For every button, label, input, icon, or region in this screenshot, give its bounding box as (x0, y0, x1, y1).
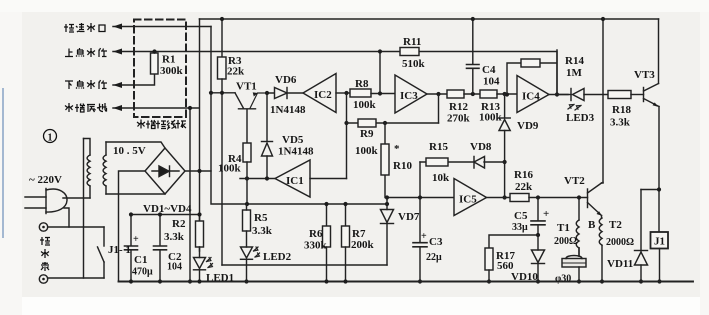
label shui-ta-di-di (tank ground) (65, 103, 107, 112)
wire: IC4 output line (549, 94, 568, 96)
junction C5 top (536, 195, 540, 199)
svg-text:LED1: LED1 (206, 272, 234, 284)
svg-text:R11: R11 (403, 36, 421, 48)
junction R2 top (197, 212, 201, 216)
svg-text:LED3: LED3 (566, 112, 595, 124)
svg-text:1: 1 (48, 133, 53, 144)
wire: secondary bottom to bridge bottom (106, 193, 165, 195)
op-amp IC3 (points right) (395, 75, 427, 113)
junction C1 rail (129, 279, 133, 283)
resistor R12 (447, 90, 464, 98)
faint blue scan edge (2, 88, 4, 238)
svg-text:C1: C1 (134, 254, 147, 266)
wire: R3/collector vertical x=222 (221, 19, 223, 57)
wire: sub-rail y=265 (222, 264, 387, 266)
svg-text:10k: 10k (432, 172, 450, 184)
svg-text:VT2: VT2 (564, 175, 585, 187)
svg-text:~ 220V: ~ 220V (29, 174, 62, 186)
junction VD9 top (503, 92, 507, 96)
svg-text:2000Ω: 2000Ω (606, 237, 634, 248)
arrow lower probe (113, 82, 122, 88)
junction R1 top (152, 49, 156, 53)
label shang-dian-shui-wei (upper level) (65, 48, 107, 57)
wire: R15/VD8 line y=162 (420, 161, 505, 163)
svg-text:300k: 300k (160, 65, 184, 77)
junction C2 bus (158, 212, 162, 216)
LED LED3 (557, 89, 608, 111)
junction bus/VD7 (385, 202, 389, 206)
dashed terminal-board box (134, 20, 186, 118)
wire: IC1 output to R4/R5 node (240, 178, 275, 180)
junction T2 rail (600, 279, 604, 283)
resistor R5 (243, 204, 251, 231)
LED LED1 (194, 247, 213, 282)
wire: lower level probe line y=85 (113, 74, 155, 85)
svg-text:R2: R2 (172, 218, 186, 230)
svg-text:J1: J1 (654, 236, 665, 248)
wire: IC2 right to R8 (336, 92, 350, 94)
svg-text:R16: R16 (514, 169, 533, 181)
transistor VT1 (235, 92, 267, 143)
circled 1 mark (44, 130, 57, 143)
wire: R16 to VT2 base (529, 197, 588, 199)
svg-text:R8: R8 (355, 78, 369, 90)
wire: bottom ground rail (119, 281, 694, 283)
svg-text:C4: C4 (482, 64, 496, 76)
svg-text:R10: R10 (393, 160, 412, 172)
junction VD11 rail (639, 279, 643, 283)
junction R10/VD7 node (385, 195, 389, 199)
junction bus R5 (245, 202, 249, 206)
svg-text:VD10: VD10 (511, 271, 538, 283)
junction probe common at collector line (209, 91, 213, 95)
diode VD5 (262, 93, 273, 178)
arrow inlet probe (113, 24, 122, 30)
junction VT1 emitter / VD5 (265, 91, 269, 95)
svg-text:VD1~VD4: VD1~VD4 (143, 203, 192, 215)
wire: R9 line y=123 (347, 122, 439, 124)
wire: R18 to VT3 base (631, 94, 644, 96)
wire: bridge - left vertex to bottom rail (119, 171, 146, 282)
wire: vertical x=346.5 IC2out to R9 line to IC1 input (346, 93, 348, 179)
wire: IC1 input from right (310, 178, 347, 180)
wire: VT3 emitter down to J1 (658, 107, 660, 233)
wire: R8 right to IC3 (371, 93, 395, 95)
wire: ground probe vertical x=190 (189, 108, 191, 282)
svg-text:3.3k: 3.3k (164, 231, 185, 243)
svg-text:R15: R15 (429, 141, 448, 153)
svg-text:3.3k: 3.3k (610, 117, 631, 129)
resistor R13 (480, 90, 497, 98)
label jie-shui-beng (connect pump) vertical (40, 237, 50, 271)
wire: IC5 input line y=197.5 (387, 197, 454, 199)
svg-text:VT1: VT1 (236, 81, 257, 93)
svg-text:104: 104 (483, 76, 500, 88)
junction C4 bottom (471, 92, 475, 96)
junction R6 bus (324, 202, 328, 206)
wire: R13 to IC4 (497, 93, 517, 95)
junction IC5 output (503, 195, 507, 199)
wire: probe common vertical x=211 down to bus (211, 27, 387, 205)
svg-text:B: B (588, 219, 596, 231)
svg-text:R18: R18 (612, 104, 631, 116)
svg-text:IC1: IC1 (286, 175, 304, 187)
wire: R15 left drop to IC5 input (419, 162, 421, 198)
junction LED2 rail (244, 279, 248, 283)
pump terminal top (39, 223, 104, 231)
junction R4 node (245, 176, 249, 180)
junction T1 top (577, 195, 581, 199)
wire: C1/C2 bus y=214.5 (131, 214, 200, 216)
svg-text:+: + (543, 208, 549, 220)
wire: C5/VT2 feed vertical x=603 from rail (602, 19, 604, 183)
junction piezo rail (577, 279, 581, 283)
wire: IC4 feedback loop with R14 (507, 50, 557, 95)
relay contact J1-1 (98, 227, 105, 278)
wire: +V vertical x=199 (rail to R2) (199, 19, 201, 221)
junction IC3 out (436, 92, 440, 96)
svg-text:200Ω: 200Ω (554, 236, 577, 247)
svg-text:100k: 100k (355, 145, 379, 157)
capacitor C4 (467, 19, 480, 94)
junction R6 rail (324, 279, 328, 283)
resistor R17 (485, 248, 493, 282)
diode VD10 (532, 235, 545, 282)
junction VD5-IC1 (265, 176, 269, 180)
op-amp IC2 (points left) (303, 74, 336, 113)
wire: tank ground probe line y=108 (113, 107, 199, 109)
LED LED2 (241, 231, 260, 282)
junction VD11 link (657, 187, 661, 191)
capacitor C3 (413, 198, 427, 282)
resistor R14 (521, 59, 540, 67)
wire: IC3 feedback drop (438, 94, 440, 123)
resistor R7 (342, 204, 350, 282)
svg-text:33μ: 33μ (512, 222, 528, 233)
wire: VT2 collector up (602, 182, 604, 185)
junction C3 rail (418, 279, 422, 283)
op-amp IC4 (points right) (517, 76, 549, 113)
svg-text:R6: R6 (309, 228, 323, 240)
svg-text:R14: R14 (565, 55, 584, 67)
label jie-jin-shui-kou (water inlet) (64, 23, 105, 32)
diode VD7 (381, 198, 394, 266)
capacitor C2 (154, 215, 167, 282)
diode VD11 (635, 190, 648, 282)
svg-text:22k: 22k (227, 66, 245, 78)
wire: primary bottom to plug y=198 (63, 197, 90, 199)
svg-text:104: 104 (167, 262, 182, 273)
svg-text:200k: 200k (351, 239, 375, 251)
svg-text:R9: R9 (360, 128, 374, 140)
diode VD6 (267, 88, 303, 99)
svg-text:J1- 1: J1- 1 (108, 244, 131, 256)
wire: inlet probe line y=26 (113, 26, 211, 28)
transistor VT3 (644, 84, 660, 107)
svg-text:3.3k: 3.3k (252, 225, 273, 237)
junction IC2out/R9 drop (344, 91, 348, 95)
junction C3/R15 node (418, 195, 422, 199)
wire: probe drop x=380 (379, 52, 381, 94)
transformer T2 winding (599, 216, 602, 282)
svg-text:+: + (421, 231, 427, 242)
svg-text:VT3: VT3 (634, 69, 655, 81)
label shui-ta-jie-xian-ban (terminal board) (137, 120, 186, 129)
svg-text:T2: T2 (609, 219, 622, 231)
junction bridge+ at x=199 (197, 169, 201, 173)
svg-text:330k: 330k (304, 240, 328, 252)
junction x=603 rail (601, 17, 605, 21)
bridge rectifier VD1-VD4 (145, 148, 185, 194)
junction VD8 right (503, 160, 507, 164)
junction J1 rail (657, 279, 661, 283)
junction LED1 rail (197, 279, 201, 283)
svg-text:100k: 100k (218, 163, 242, 175)
resistor R8 (350, 89, 371, 97)
transformer primary coil (84, 139, 91, 199)
wire: R3 bottom to collector line (221, 79, 223, 93)
op-amp IC1 (points left) (275, 160, 310, 197)
resistor R11 (400, 48, 419, 56)
svg-text:IC5: IC5 (459, 194, 477, 206)
svg-text:270k: 270k (447, 113, 471, 125)
resistor R15 (426, 158, 448, 166)
junction collector node (220, 91, 224, 95)
wire: R4 node down to bus (246, 179, 248, 205)
resistor R4 (243, 143, 251, 179)
resistor R1 (151, 52, 159, 75)
svg-text:C3: C3 (429, 236, 443, 248)
piezo sounder phi30 (562, 248, 586, 282)
svg-text:10 . 5V: 10 . 5V (113, 145, 146, 157)
wire: collector line and x=222 down to LED2 subrail (211, 93, 235, 265)
wire: secondary top to bridge top (106, 142, 165, 148)
svg-text:R12: R12 (449, 101, 468, 113)
svg-text:510k: 510k (402, 58, 426, 70)
wire: primary top down-wire x=83.5 (83, 139, 85, 279)
wire: C5 bottom to R17 (489, 235, 538, 248)
svg-text:VD7: VD7 (398, 211, 420, 223)
transformer T1 winding (576, 198, 579, 257)
pump terminal bottom (39, 275, 104, 283)
svg-text:IC3: IC3 (400, 90, 418, 102)
svg-text:22μ: 22μ (426, 252, 442, 263)
resistor R2 (196, 215, 204, 252)
junction ground probe (188, 106, 192, 110)
svg-text:VD8: VD8 (470, 141, 492, 153)
arrow upper probe (113, 49, 122, 55)
transformer secondary coil (103, 142, 106, 194)
wire: top +V rail y=19 (200, 18, 659, 20)
junction probe line R11 (378, 49, 382, 53)
svg-text:LED2: LED2 (263, 251, 292, 263)
junction R17 rail (487, 279, 491, 283)
svg-text:VD11: VD11 (607, 258, 633, 270)
resistor R18 (608, 91, 631, 99)
wire: IC5 output to R16 (487, 197, 511, 199)
junction R3 rail (220, 17, 224, 21)
junction R7 bus (343, 202, 347, 206)
junction R8/probe drop (378, 91, 382, 95)
svg-text:IC2: IC2 (314, 89, 332, 101)
resistor R16 (510, 194, 529, 202)
svg-text:1M: 1M (566, 67, 583, 79)
junction R10 top (383, 121, 387, 125)
capacitor C1 (125, 215, 138, 282)
resistor R6 (323, 204, 331, 282)
junction R14 left (505, 92, 509, 96)
op-amp IC5 (points right) (454, 179, 487, 216)
svg-text:100k: 100k (479, 112, 503, 124)
svg-text:C5: C5 (514, 210, 528, 222)
wire: bridge + output to verticals (185, 170, 211, 172)
svg-text:IC4: IC4 (522, 91, 540, 103)
junction C2 rail (158, 279, 162, 283)
junction R9 left (344, 121, 348, 125)
wire: VT3 collector up to rail corner (658, 19, 660, 84)
svg-text:1N4148: 1N4148 (278, 146, 314, 158)
svg-text:R1: R1 (162, 54, 175, 66)
wire: VD11/J1 top link (641, 189, 659, 191)
diode VD8 (points left) (474, 157, 485, 169)
diode VD9 (499, 94, 510, 198)
capacitor C5 (531, 198, 545, 236)
wire: upper level probe line y=51.5 (113, 52, 557, 94)
junction ground probe rail (188, 279, 192, 283)
svg-text:VD9: VD9 (517, 120, 539, 132)
relay coil J1 (651, 232, 669, 282)
svg-text:470μ: 470μ (132, 267, 153, 278)
svg-text:1N4148: 1N4148 (270, 104, 306, 116)
transistor VT2 (588, 183, 602, 216)
mains plug (25, 189, 69, 228)
svg-text:+: + (133, 234, 139, 245)
wire: R12 to R13 (464, 93, 480, 95)
arrow ground probe (113, 105, 122, 111)
svg-text:φ30: φ30 (555, 274, 571, 285)
resistor R9 (358, 119, 376, 127)
junction C1 bus (129, 212, 133, 216)
svg-text:*: * (394, 143, 400, 155)
svg-text:T1: T1 (557, 222, 570, 234)
junction C5/VD10 (536, 233, 540, 237)
svg-text:VD5: VD5 (282, 134, 304, 146)
svg-text:22k: 22k (515, 181, 533, 193)
svg-text:R5: R5 (254, 212, 268, 224)
label xia-dian-shui-wei (lower level) (65, 80, 107, 89)
junction R14 right output (555, 92, 559, 96)
junction R7 rail (343, 279, 347, 283)
svg-text:100k: 100k (353, 99, 377, 111)
resistor R3 (218, 57, 227, 79)
wire: IC3 out (427, 93, 447, 95)
resistor R10 (381, 123, 389, 198)
junction VD10 rail (536, 279, 540, 283)
junction C4 rail (471, 17, 475, 21)
svg-text:VD6: VD6 (275, 74, 297, 86)
